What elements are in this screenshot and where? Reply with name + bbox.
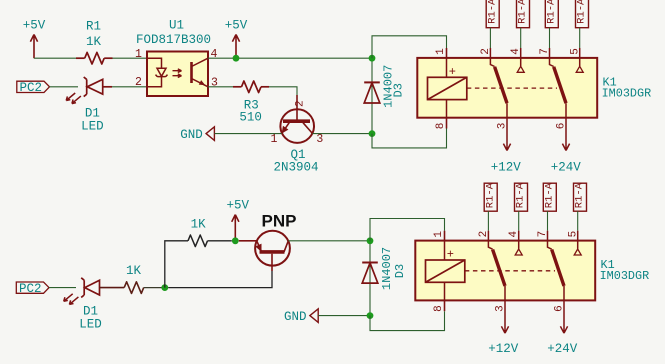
K1(top) switch A pins 2-3	[490, 58, 494, 67]
LED D1 (top)	[66, 77, 103, 104]
resistor R1 1K	[76, 20, 113, 65]
junction diode bottom	[369, 130, 376, 137]
svg-text:LED: LED	[81, 120, 104, 134]
svg-text:2: 2	[135, 76, 142, 89]
resistor R3 510	[233, 81, 269, 124]
power +24V arrow (bottom pin6)	[547, 300, 578, 356]
svg-text:+: +	[449, 65, 456, 79]
svg-text:3: 3	[211, 77, 218, 90]
relay K1 IM03DGR (bottom)	[415, 231, 649, 312]
wire +5V to R1	[34, 57, 76, 59]
wire PC2 to D1	[50, 86, 79, 88]
K1(bottom) switch B pins 7-6	[548, 241, 552, 250]
D1 anode lead	[103, 86, 112, 88]
global label R1-A (bottom pin7)	[543, 182, 556, 240]
K1(top) coil	[428, 77, 467, 99]
global label R1-A (bottom pin2)	[484, 182, 497, 240]
svg-text:4: 4	[211, 48, 218, 61]
junction base node	[161, 284, 168, 291]
relay pin1 stub	[446, 48, 448, 58]
wire collector rail to relay pin1 (bottom)	[370, 219, 445, 241]
svg-text:R1-A: R1-A	[544, 182, 556, 208]
wire relay pin8 return (bottom)	[370, 311, 445, 330]
svg-text:R1-A: R1-A	[515, 182, 527, 208]
junction diode bottom (bottom ckt)	[367, 312, 374, 319]
svg-text:GND: GND	[284, 310, 307, 324]
power +12V arrow (bottom pin3)	[488, 300, 519, 356]
wire PC2 to D1 (bottom)	[49, 287, 76, 289]
power +5V #PWR3	[226, 198, 249, 240]
transistor PNP	[239, 212, 297, 271]
global label R1-A (top pin5)	[576, 0, 589, 58]
ground GND (bottom)	[284, 309, 318, 324]
svg-text:510: 510	[239, 110, 262, 124]
resistor 1K (bottom series)	[124, 264, 144, 294]
K1(top) pin 4 contact	[520, 58, 522, 66]
svg-text:FOD817B300: FOD817B300	[136, 33, 211, 47]
svg-text:R1-A: R1-A	[546, 0, 558, 24]
K1(bottom) pin 4 contact	[518, 241, 520, 249]
svg-text:+24V: +24V	[547, 342, 578, 356]
svg-text:3: 3	[316, 133, 323, 146]
K1(bottom) dashed actuator line	[465, 270, 555, 272]
relay pin8 stub (bottom)	[444, 300, 446, 311]
K1(bottom) switch A pins 2-3	[488, 241, 492, 250]
global label R1-A (top pin2)	[486, 0, 499, 58]
svg-text:D1: D1	[85, 106, 100, 120]
svg-text:D3: D3	[392, 83, 406, 97]
K1(bottom) pin 5 contact	[577, 241, 579, 249]
global label R1-A (top pin7)	[545, 0, 558, 58]
wire D1 to U1 pin2	[112, 86, 147, 88]
svg-text:1: 1	[435, 48, 447, 55]
wire relay pin8 return	[372, 129, 447, 148]
diode D3 1N4007 (bottom)	[362, 263, 378, 284]
global label R1-A (bottom pin4)	[515, 182, 528, 240]
power +5V #PWR1	[23, 18, 46, 58]
black wire junction to pull-up 1K	[165, 241, 188, 288]
wire 1K to junction	[144, 287, 165, 289]
black wire PNP base return	[168, 271, 272, 288]
svg-text:GND: GND	[180, 128, 203, 142]
svg-text:1: 1	[271, 133, 278, 146]
svg-text:1N4007: 1N4007	[380, 247, 394, 290]
K1(top) switch B pins 7-6	[550, 58, 554, 67]
svg-text:1K: 1K	[126, 264, 142, 278]
D1 anode lead to 1K (bottom)	[100, 287, 125, 289]
K1(bottom) coil	[426, 260, 465, 282]
wire R3 to Q1 base	[269, 87, 297, 95]
svg-text:D3: D3	[393, 264, 407, 278]
svg-text:PC2: PC2	[19, 81, 42, 95]
svg-text:1K: 1K	[86, 35, 102, 49]
svg-text:R1-A: R1-A	[517, 0, 529, 24]
junction diode top (bottom ckt)	[367, 237, 374, 244]
power +24V arrow (top pin6)	[551, 118, 582, 175]
K1(top) pin 5 contact	[579, 58, 581, 66]
diode D3 1N4007 (top)	[364, 82, 380, 103]
svg-text:2N3904: 2N3904	[273, 161, 318, 175]
ground GND (top)	[180, 127, 214, 142]
svg-text:U1: U1	[169, 19, 184, 33]
relay pin1 stub (bottom)	[444, 231, 446, 241]
svg-text:+12V: +12V	[488, 342, 519, 356]
wire PNP collector to diode column	[288, 240, 370, 242]
opto-coupler U1 FOD817B300	[135, 19, 218, 97]
hierarchical label PC2 (bottom)	[16, 282, 49, 296]
junction +5V / pin4	[233, 55, 240, 62]
junction diode top	[369, 55, 376, 62]
svg-text:+5V: +5V	[225, 18, 248, 32]
wire Q1 collector to diode column	[313, 133, 373, 135]
svg-text:+12V: +12V	[491, 161, 522, 175]
Q1 base pin	[296, 95, 298, 121]
U1 photo-transistor	[190, 62, 193, 83]
resistor 1K (bottom pull-up)	[188, 217, 208, 246]
global label R1-A (bottom pin5)	[574, 182, 587, 240]
svg-text:PC2: PC2	[19, 282, 42, 296]
svg-text:PNP: PNP	[262, 212, 297, 231]
wire GND to Q1 emitter	[214, 133, 281, 135]
power +12V arrow (top pin3)	[491, 118, 522, 175]
wire R1 to U1 pin1	[113, 57, 148, 59]
hierarchical label PC2 (top)	[17, 81, 50, 95]
svg-text:+: +	[447, 248, 454, 262]
wire diode column (bottom)	[369, 241, 371, 316]
svg-text:1K: 1K	[191, 217, 207, 231]
svg-text:R1-A: R1-A	[484, 182, 496, 208]
svg-text:+5V: +5V	[23, 18, 46, 32]
svg-text:IM03DGR: IM03DGR	[602, 86, 652, 100]
power +5V #PWR2	[225, 18, 248, 58]
relay K1 IM03DGR (top)	[417, 48, 651, 129]
svg-text:1: 1	[433, 231, 445, 238]
wire U1 pin3 to R3	[208, 86, 233, 88]
global label R1-A (top pin4)	[517, 0, 530, 58]
svg-text:8: 8	[433, 305, 445, 312]
svg-text:R1-A: R1-A	[574, 182, 586, 208]
relay pin8 stub	[446, 118, 448, 129]
U1 internal LED	[147, 58, 162, 68]
junction emitter node	[232, 237, 239, 244]
svg-text:R1: R1	[86, 20, 101, 34]
svg-text:2: 2	[294, 100, 306, 107]
svg-text:1: 1	[135, 48, 142, 61]
svg-text:LED: LED	[79, 318, 102, 332]
svg-text:+5V: +5V	[226, 198, 249, 212]
U1 light arrows	[173, 69, 182, 73]
wire U1 pin4 to diode column	[208, 57, 372, 59]
svg-text:D1: D1	[83, 304, 98, 318]
K1(top) dashed actuator line	[467, 87, 557, 89]
wire +5V rail to relay pin1	[372, 36, 447, 58]
svg-text:+24V: +24V	[551, 161, 582, 175]
svg-text:IM03DGR: IM03DGR	[600, 269, 650, 283]
svg-text:R1-A: R1-A	[486, 0, 498, 24]
LED D1 (bottom)	[64, 278, 100, 305]
svg-text:8: 8	[435, 123, 447, 130]
wire diode column (top)	[371, 58, 373, 133]
black wire 1K to emitter node	[208, 240, 232, 242]
transistor Q1 2N3904	[271, 100, 324, 174]
wire GND to coil return	[318, 315, 370, 317]
svg-text:R1-A: R1-A	[576, 0, 588, 24]
